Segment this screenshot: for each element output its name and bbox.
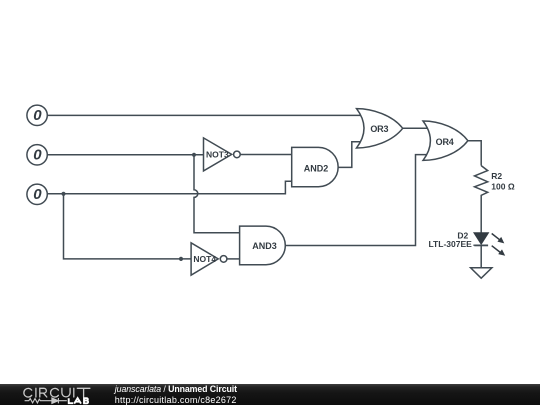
- svg-text:0: 0: [33, 107, 42, 124]
- svg-text:OR3: OR3: [370, 124, 388, 134]
- wire input2 branch down with hop over row3, to AND3 top input: [194, 155, 241, 233]
- svg-text:NOT4: NOT4: [193, 254, 216, 264]
- and-gate AND2: [292, 147, 338, 186]
- svg-text:OR4: OR4: [436, 137, 454, 147]
- LED D2 cathode bar: [474, 244, 488, 246]
- junction on input2 at NOT3 branch: [192, 153, 196, 157]
- svg-text:AND3: AND3: [252, 241, 277, 251]
- input node 1 (logic 0): [27, 105, 47, 125]
- svg-text:R2: R2: [491, 171, 502, 181]
- wire AND2 output to OR3 bottom input: [338, 142, 363, 168]
- wire AND3 output to OR4 bottom input: [285, 155, 430, 246]
- footer line 2: url: [115, 395, 237, 405]
- svg-text:0: 0: [33, 186, 42, 203]
- LED D2 triangle: [474, 233, 489, 244]
- wire OR4 output to resistor R2: [468, 141, 481, 166]
- LED emission arrow 1: [492, 234, 505, 244]
- wire LED to ground: [480, 245, 482, 267]
- LED label leader dash: [473, 244, 477, 246]
- junction before NOT4 input: [179, 257, 183, 261]
- footer line 1: user / title: [115, 384, 237, 394]
- ground symbol: [471, 268, 492, 278]
- svg-text:AND2: AND2: [304, 163, 329, 173]
- wire input1 to OR3 top input: [48, 114, 363, 116]
- inverter NOT4: [191, 243, 227, 275]
- wire NOT3 output to AND2 top input: [240, 154, 293, 156]
- wire OR3 output to OR4 top input: [403, 127, 430, 129]
- or-gate OR3: [357, 109, 403, 148]
- inverter NOT3: [204, 138, 241, 171]
- svg-text:0: 0: [33, 147, 42, 164]
- wire NOT4 output to AND3 bottom input: [227, 258, 241, 260]
- CircuitLab logo: [0, 384, 110, 405]
- LED emission arrow 2: [492, 246, 506, 256]
- svg-text:LTL-307EE: LTL-307EE: [429, 239, 473, 249]
- input node 3 (logic 0): [27, 184, 47, 204]
- wire input3 branch down to NOT4 input: [64, 194, 194, 259]
- or-gate OR4: [423, 121, 468, 160]
- wire input2 to NOT3 input: [48, 154, 205, 156]
- svg-text:100 Ω: 100 Ω: [491, 182, 515, 192]
- input node 2 (logic 0): [27, 145, 47, 165]
- wire input3 row to step-up into AND2 bottom input: [48, 181, 293, 194]
- resistor R2 zigzag: [475, 166, 488, 233]
- svg-text:NOT3: NOT3: [206, 149, 229, 159]
- junction on input3 at vertical branch: [61, 192, 65, 196]
- footer bar: [0, 384, 540, 405]
- and-gate AND3: [240, 226, 286, 265]
